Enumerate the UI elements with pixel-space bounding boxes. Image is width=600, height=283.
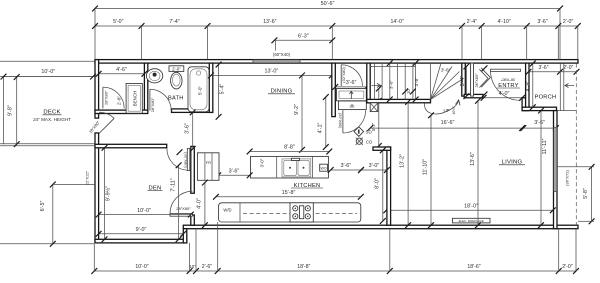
deck bottom edge double	[0, 144, 95, 146]
svg-text:CO: CO	[366, 139, 373, 144]
dimension bench 4'-6"	[96, 67, 148, 77]
extension line bottom x189.6	[189, 243, 191, 271]
pier label 22x22	[85, 170, 90, 185]
room label bath	[168, 96, 184, 102]
stair treads	[375, 63, 416, 99]
svg-text:BENCH: BENCH	[133, 91, 138, 106]
den bottom wall extension to left margin	[0, 243, 94, 245]
svg-text:5′-4″: 5′-4″	[220, 84, 226, 95]
door hall upper 32x80 leaf and arc	[341, 65, 362, 86]
svg-text:8′-0″: 8′-0″	[375, 178, 381, 189]
svg-text:UP: UP	[443, 108, 449, 113]
wall kitchen east	[387, 147, 391, 225]
svg-text:3′-0″: 3′-0″	[259, 158, 264, 167]
extension line bottom x217.7	[217, 222, 219, 271]
wall porch south	[522, 107, 556, 110]
svg-text:22″X22″: 22″X22″	[85, 170, 90, 185]
porch step arrow	[565, 84, 574, 88]
svg-text:WO: WO	[321, 166, 327, 170]
dimension island 8'-8"	[247, 145, 333, 155]
door bench 28x80 leaf and arc	[103, 87, 124, 108]
stair handrail line	[370, 66, 415, 68]
svg-text:10″: 10″	[406, 87, 411, 94]
svg-text:db: db	[350, 103, 355, 108]
dimension 4'-1"	[318, 94, 329, 150]
dimension left 6'-5"	[40, 182, 56, 247]
dimension 13'-6"	[470, 98, 481, 228]
svg-text:13′-6″: 13′-6″	[263, 19, 276, 25]
room label living	[499, 160, 525, 166]
window size label 60x40	[273, 40, 291, 57]
dimension dining 13'-0"	[208, 69, 335, 79]
toilet	[169, 66, 184, 89]
dimension porch 3'-6"	[520, 120, 558, 131]
door hall lower 32x80 leaf and arc	[338, 110, 366, 133]
window dining in top wall	[253, 60, 300, 64]
dimension 1'-3" and 5'-2"	[371, 86, 382, 149]
dimension den 9'-0"	[96, 227, 187, 237]
svg-text:10′-0″: 10′-0″	[41, 69, 55, 75]
dimension 3'-6" fridge to island	[215, 169, 252, 179]
wall kitchen east top stub	[373, 147, 391, 150]
room label entry	[497, 83, 520, 89]
dimension living 5'-8"	[583, 164, 594, 224]
dimension bath 5'-4"	[216, 62, 226, 120]
dimension stair 3'-4"	[460, 64, 469, 100]
window label 96x72	[565, 170, 570, 186]
svg-text:4′-0″: 4′-0″	[499, 91, 510, 97]
svg-text:2′-0″: 2′-0″	[563, 65, 573, 71]
svg-text:13′-0″: 13′-0″	[265, 69, 279, 75]
dimension den 9'-9.5"	[102, 145, 112, 242]
closet DB upper box	[337, 89, 367, 101]
dimension porch top 3'-6 and 2'-0	[526, 65, 580, 75]
svg-text:3′-0″: 3′-0″	[369, 163, 380, 169]
svg-text:3′-6″: 3′-6″	[537, 19, 547, 25]
door bath 28x80 leaf and arc	[150, 89, 171, 112]
svg-text:50′-6″: 50′-6″	[321, 1, 335, 7]
room label porch	[535, 94, 557, 100]
svg-text:13′-6″: 13′-6″	[470, 152, 476, 166]
svg-text:3′-6″: 3′-6″	[185, 123, 191, 134]
extension line bottom x389.8	[389, 229, 391, 271]
smoke detector SD	[354, 127, 372, 137]
extension line at x=577.8	[577, 26, 579, 60]
wall left exterior upper	[95, 60, 99, 119]
extension line at x=481.6	[481, 26, 483, 60]
svg-text:9′-0″: 9′-0″	[136, 227, 147, 233]
svg-text:28″X80″: 28″X80″	[150, 97, 155, 112]
wall den east	[191, 146, 195, 193]
dimension bottom row 10'-0/10/2'-6/18'-8/18'-6/2'-0	[91, 264, 579, 274]
svg-text:3′-8″: 3′-8″	[414, 77, 419, 87]
counter west kitchen run	[219, 203, 361, 222]
deck left edge	[3, 77, 5, 145]
wall den east hinge stub	[191, 215, 195, 225]
sink bath oval	[146, 69, 162, 83]
dimension kitchen 8'-0"	[375, 147, 386, 224]
dimension entry 4'-0"	[481, 91, 525, 101]
wall bench closet east	[144, 63, 147, 112]
svg-text:11′-10″: 11′-10″	[423, 159, 429, 175]
svg-text:FR: FR	[206, 161, 211, 165]
dimension 6'-3" window locate	[272, 34, 336, 44]
extension line at x=141.5	[141, 26, 143, 60]
extension line at x=462	[461, 26, 463, 60]
svg-text:4′-10″: 4′-10″	[498, 19, 511, 25]
svg-text:18′-8″: 18′-8″	[297, 264, 310, 270]
svg-text:10′-0″: 10′-0″	[137, 208, 151, 214]
svg-text:4′-1″: 4′-1″	[318, 123, 324, 134]
wall under bench	[95, 110, 148, 113]
dimension 13'-2"	[400, 99, 412, 228]
svg-text:3′-6″: 3′-6″	[539, 65, 549, 71]
svg-text:(96″X72): (96″X72)	[565, 170, 570, 186]
wall dining east	[332, 63, 336, 117]
extension line 50-6 right	[559, 9, 561, 60]
extension line living wall bottom	[578, 220, 594, 222]
door deck 28x80 diagonal leaf	[88, 112, 114, 134]
deck top edge	[0, 76, 95, 78]
dimension living 18'-0"	[383, 203, 555, 213]
wall entry closet east	[471, 63, 474, 96]
svg-text:BATH: BATH	[168, 96, 184, 102]
fireplace elec	[453, 218, 491, 223]
dimension den nook 4'-0"	[197, 180, 208, 228]
winder fan lines	[431, 63, 464, 99]
svg-text:(60″X40): (60″X40)	[273, 52, 291, 57]
extension line bottom x558.7	[558, 229, 560, 271]
dimension 11'-11"	[538, 108, 548, 228]
svg-text:10′-0″: 10′-0″	[135, 264, 148, 270]
svg-text:9′-9½″: 9′-9½″	[105, 186, 112, 201]
svg-text:24″ MAX. HEIGHT: 24″ MAX. HEIGHT	[33, 117, 71, 122]
svg-text:36″X80″: 36″X80″	[500, 77, 515, 82]
svg-text:5′-0″: 5′-0″	[113, 19, 123, 25]
kitchen wall oven WO	[320, 164, 328, 171]
tick den north door jamb	[177, 149, 183, 155]
kitchen island counter	[251, 156, 329, 178]
svg-text:5′-8″: 5′-8″	[583, 188, 589, 199]
svg-text:18′-0″: 18′-0″	[464, 203, 478, 209]
svg-text:8′-8″: 8′-8″	[284, 145, 295, 151]
svg-text:14′-0″: 14′-0″	[391, 19, 404, 25]
svg-text:W/D: W/D	[223, 208, 231, 213]
bathtub	[188, 67, 209, 112]
svg-text:9′-8″: 9′-8″	[8, 105, 14, 116]
svg-text:28″X80″: 28″X80″	[104, 90, 109, 105]
wall under stairs	[367, 99, 431, 102]
wall bottom den exterior	[95, 239, 187, 243]
svg-text:2′-0″: 2′-0″	[563, 19, 573, 25]
svg-text:5′-0″: 5′-0″	[198, 86, 203, 96]
extension line at x=526.7	[526, 26, 528, 60]
svg-text:2′-4″: 2′-4″	[467, 19, 477, 25]
dimension kitchen 15'-8"	[213, 190, 364, 200]
top wall extension line to left margin	[0, 60, 95, 62]
svg-text:15′-8″: 15′-8″	[282, 190, 296, 196]
extension line at x=207.5	[207, 26, 209, 60]
dimension dining depth 9'-2"	[294, 73, 305, 153]
deck label	[33, 110, 71, 123]
wall entry east step	[522, 98, 526, 111]
winder label 3'-6"	[441, 68, 451, 74]
svg-text:(30″X80): (30″X80)	[183, 152, 188, 168]
svg-text:2′-0″: 2′-0″	[172, 66, 181, 71]
svg-text:4′-6″: 4′-6″	[116, 67, 127, 73]
wall porch west	[526, 63, 529, 111]
stair direction arrow	[372, 83, 381, 87]
wall stairs west	[367, 63, 370, 103]
dimension den 10'-0"	[96, 208, 194, 218]
bench fixture	[126, 84, 142, 114]
dimension 3'-0" to kitchen wall	[358, 163, 390, 173]
svg-text:3′-6″: 3′-6″	[346, 80, 357, 86]
wall living east	[554, 111, 558, 229]
extension line 50-6 left	[94, 9, 96, 60]
svg-text:7′-4″: 7′-4″	[169, 19, 179, 25]
dimension 16'-6"	[367, 120, 525, 131]
svg-text:16′-6″: 16′-6″	[441, 120, 455, 126]
svg-text:10¼″: 10¼″	[452, 106, 456, 115]
svg-text:4′-0″: 4′-0″	[197, 198, 203, 209]
closet DB lower box	[339, 101, 367, 110]
svg-text:(32″X80): (32″X80)	[338, 113, 343, 129]
wall bath south	[172, 109, 213, 113]
stair label 3'-8"	[414, 77, 419, 87]
stair width label 3'-0"	[389, 80, 394, 90]
door bifold 36x80 chevron	[474, 65, 491, 97]
dimension row segments 5'-0/7'-4/13'-6/14'-0/2'-4/4'-10/3'-6/2'-0	[92, 19, 581, 29]
svg-text:3′-6″: 3′-6″	[340, 163, 351, 169]
dimension den 7'-11"	[170, 162, 181, 242]
stair dim ticks	[387, 60, 419, 102]
svg-text:3′-6″: 3′-6″	[534, 120, 545, 126]
svg-text:3′-6″: 3′-6″	[229, 169, 240, 175]
extension line bottom x94.3	[93, 244, 95, 271]
curved up arrow	[424, 100, 460, 115]
counter dashed centerline	[243, 212, 357, 214]
extension line 6-5 top	[53, 184, 95, 186]
wall left exterior lower / den west	[95, 133, 99, 243]
dimension overall 50'-6"	[92, 1, 563, 12]
dimension deck width 10'-0"	[1, 69, 96, 80]
svg-text:10″: 10″	[189, 264, 196, 269]
svg-text:4′-9″: 4′-9″	[525, 81, 531, 92]
wall top exterior	[95, 60, 578, 64]
svg-text:36″X80″: 36″X80″	[474, 73, 479, 88]
extension line bottom x576	[575, 229, 577, 271]
svg-text:6′-3″: 6′-3″	[298, 34, 309, 40]
stove range	[290, 203, 313, 222]
svg-text:9′-2″: 9′-2″	[294, 104, 300, 115]
chase box under stairs	[370, 103, 378, 112]
extension line window sill	[557, 166, 594, 168]
dimension 3'-6" below bath	[185, 110, 196, 152]
svg-text:PORCH: PORCH	[535, 94, 557, 100]
door den east 28x80 leaf and arc	[170, 191, 192, 216]
wall bottom main exterior	[183, 225, 578, 229]
window living east wall	[554, 127, 558, 191]
extension line at x=332.3	[331, 26, 333, 60]
kitchen double sink	[282, 158, 311, 177]
roofline dashed right	[575, 64, 577, 229]
wall bath east	[209, 63, 213, 112]
svg-text:3′-6″: 3′-6″	[441, 68, 451, 74]
svg-text:7′-11″: 7′-11″	[170, 178, 176, 191]
svg-text:6′-5″: 6′-5″	[40, 201, 46, 212]
svg-text:13′-2″: 13′-2″	[400, 154, 406, 168]
door entry 36x80 leaf and arc	[491, 69, 521, 100]
dimension 3'-6" island to wall	[328, 163, 364, 173]
dimension 11'-10"	[423, 112, 434, 228]
wall den top	[95, 144, 167, 148]
dimension porch 4'-9"	[525, 61, 535, 111]
dimension hall 3'-6"	[332, 80, 369, 90]
fridge FR	[197, 153, 219, 181]
stair tread label 10"	[406, 87, 411, 94]
wall den step connector	[183, 229, 187, 243]
svg-text:2′-6″: 2′-6″	[202, 264, 212, 270]
room label dining	[268, 89, 295, 95]
svg-text:18′-6″: 18′-6″	[467, 264, 480, 270]
svg-text:2′-8″: 2′-8″	[117, 96, 122, 106]
svg-text:3′-4″: 3′-4″	[460, 76, 466, 87]
porch steps verticals	[557, 64, 577, 111]
wall winder east	[462, 63, 466, 96]
room label kitchen	[291, 183, 323, 189]
door den north 30x80 arc	[167, 149, 190, 171]
svg-text:3′-0″: 3′-0″	[389, 80, 394, 90]
svg-text:11′-11″: 11′-11″	[542, 138, 548, 154]
carbon monoxide CO	[356, 138, 373, 145]
dimension deck depth 9'-8"	[8, 74, 20, 147]
svg-text:2′-0″: 2′-0″	[562, 264, 572, 270]
wall entry south stub	[464, 94, 483, 97]
extension line bottom x196	[195, 229, 197, 271]
extension line at x=558.3	[557, 26, 559, 60]
room label den	[148, 185, 163, 191]
